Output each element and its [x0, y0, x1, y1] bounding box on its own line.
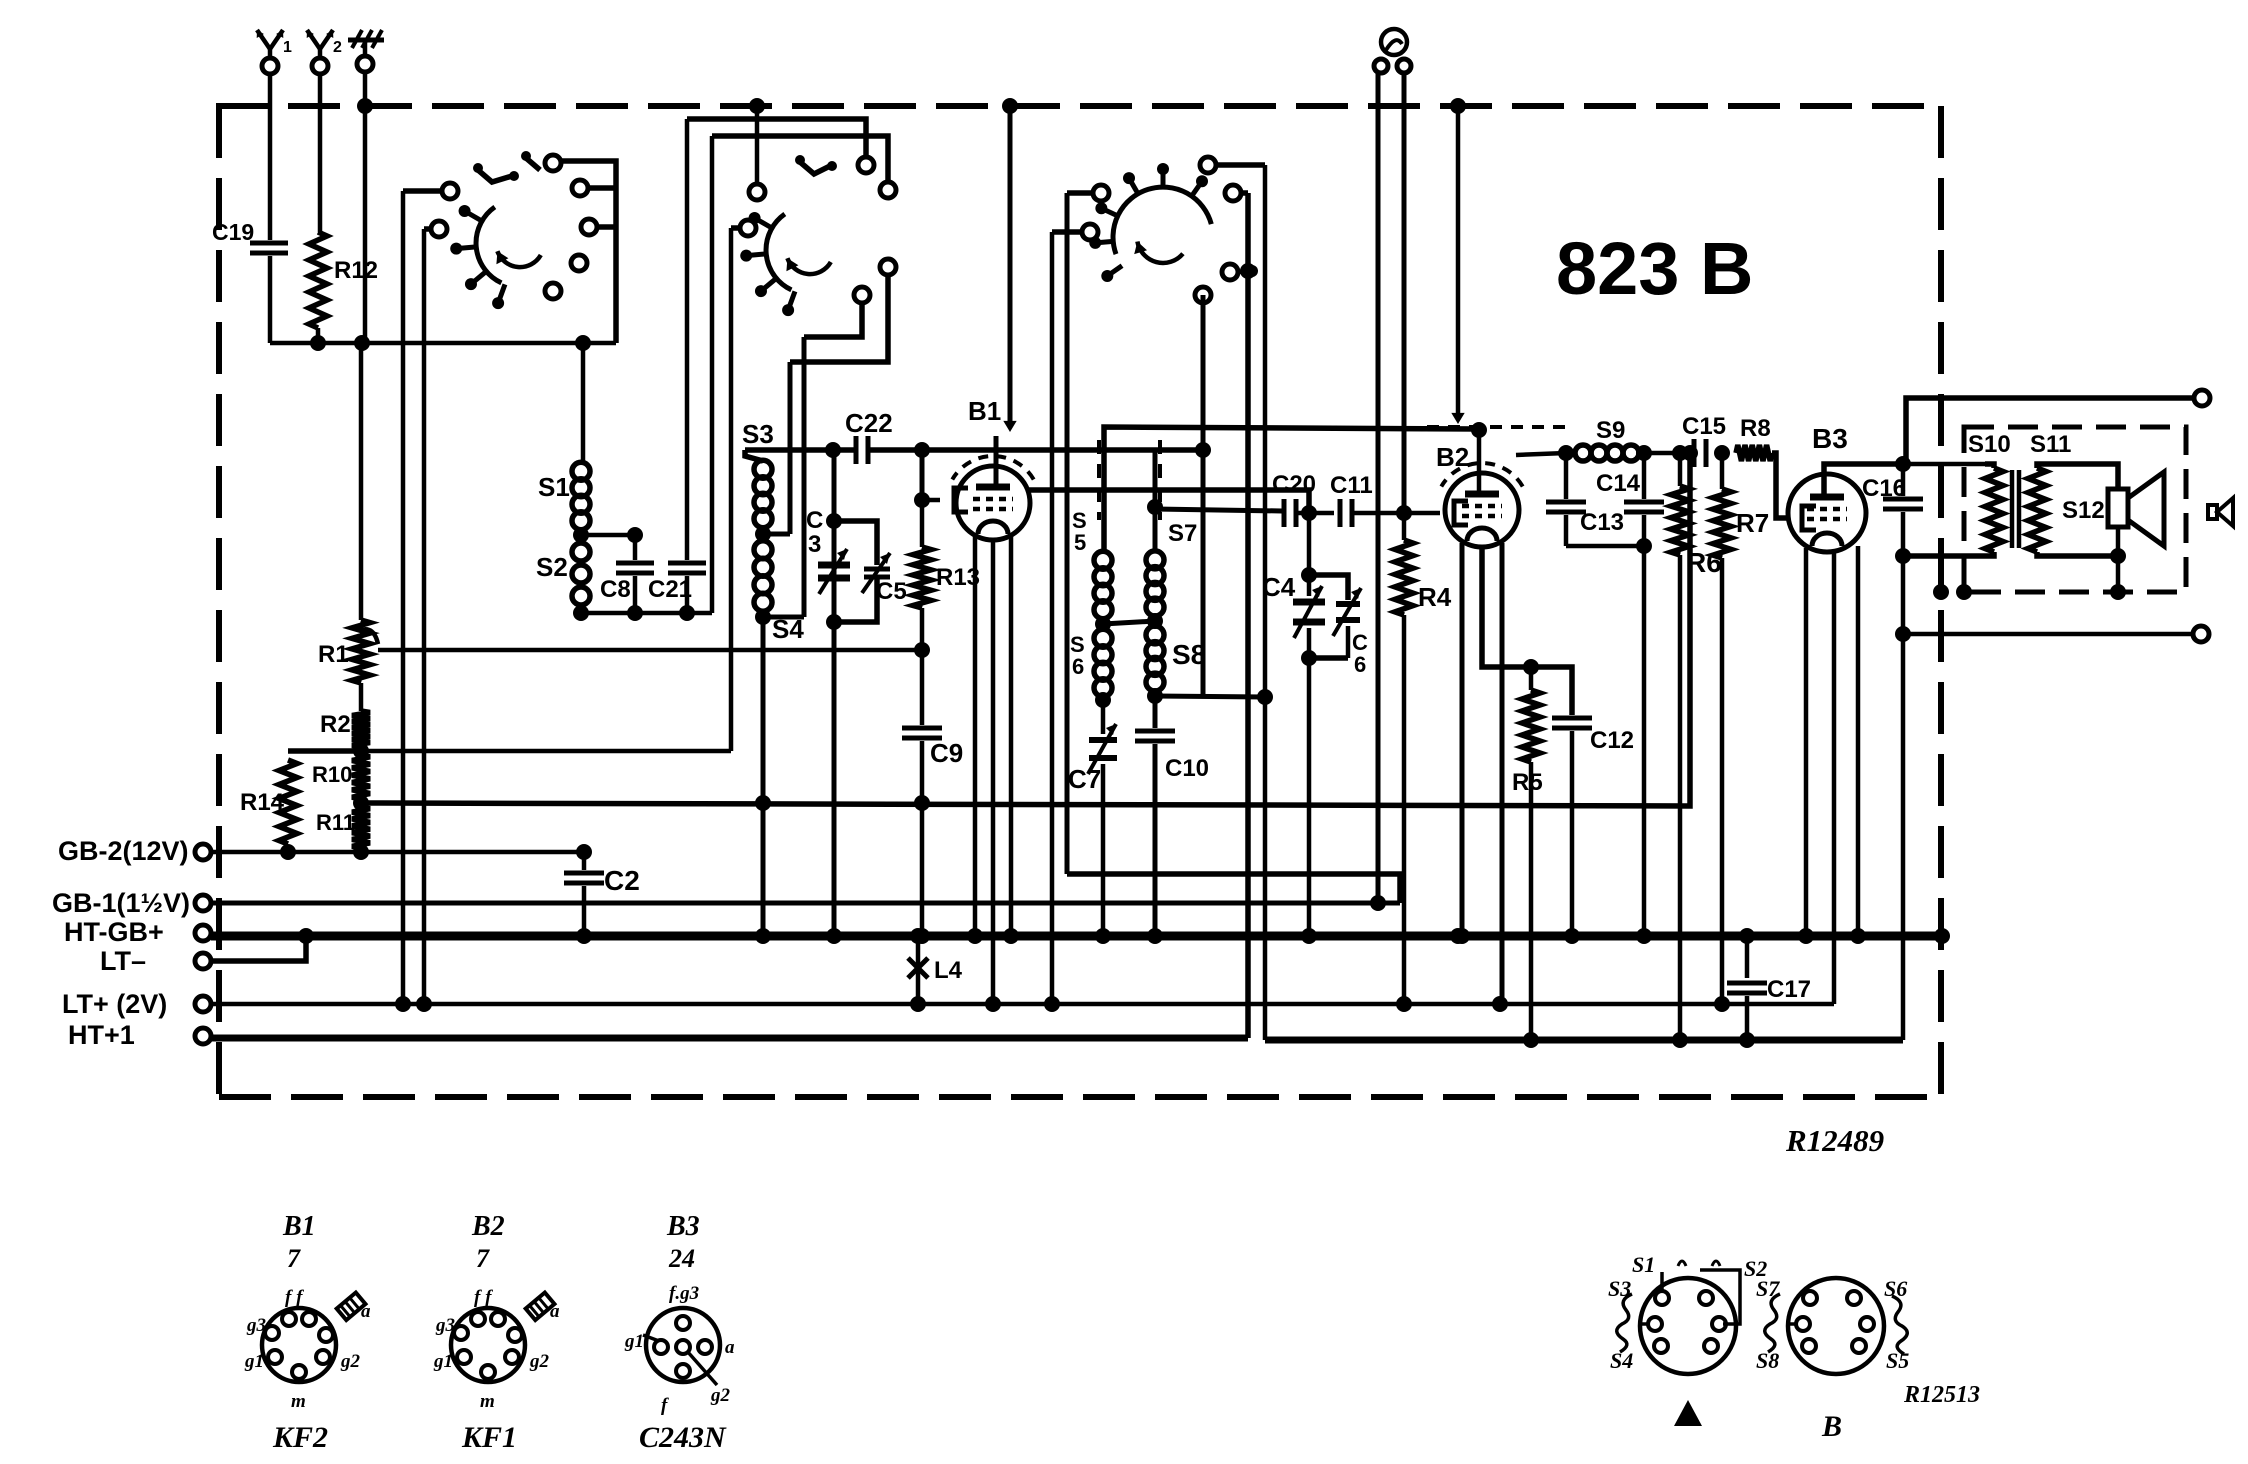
node x834 busA [826, 928, 842, 944]
wire switch I left riser 2 [422, 229, 427, 1004]
wire R8 to B3 grid [1772, 453, 1788, 518]
wire osc injection line [1104, 427, 1479, 552]
wire S3 top line [745, 447, 854, 453]
node R5 top [1523, 659, 1539, 675]
chassis dashed border left [216, 106, 222, 1097]
wire R13 down [920, 608, 925, 725]
svg-text:g3: g3 [246, 1315, 266, 1336]
node C9 on H4 [914, 795, 930, 811]
node C16 bottom [1895, 548, 1911, 564]
tube B3 [1788, 474, 1866, 552]
svg-text:S7: S7 [1756, 1276, 1780, 1301]
switch I contact f [571, 255, 587, 271]
switch I contact b [431, 221, 447, 237]
node sw1 riser2 LT+ [416, 996, 432, 1012]
node C12 busA [1564, 928, 1580, 944]
svg-text:g1: g1 [433, 1351, 453, 1372]
socket B clamp right [1892, 1296, 1907, 1354]
node HT-GB+ end [1934, 928, 1950, 944]
wire GB-1 bias link [1067, 874, 1400, 903]
svg-text:g3: g3 [435, 1315, 455, 1336]
svg-text:R8: R8 [1740, 415, 1771, 442]
wire B2 cap lead [1477, 430, 1482, 494]
terminal HT+1 [195, 1028, 211, 1044]
svg-text:C4: C4 [1262, 572, 1296, 602]
wire LT+ bus [211, 1002, 1834, 1007]
svg-text:f f: f f [474, 1287, 493, 1308]
svg-text:823 B: 823 B [1556, 227, 1753, 310]
node C16 speaker line [1895, 626, 1911, 642]
svg-text:g2: g2 [340, 1351, 361, 1372]
jack symbol [1381, 29, 1407, 55]
svg-text:B: B [1821, 1410, 1842, 1443]
node S4 on busA [755, 928, 771, 944]
node sw3 down2 LT+ [1044, 996, 1060, 1012]
svg-text:S3: S3 [742, 419, 774, 449]
node H4 top [1682, 445, 1698, 461]
wire sw2 link 2 [712, 136, 888, 182]
coil S4 [754, 541, 772, 559]
speaker cone [2128, 472, 2164, 546]
switch II contact d [880, 182, 896, 198]
tube base B1 KF2 [262, 1308, 336, 1382]
wire R7 down [1720, 558, 1725, 1004]
svg-text:6: 6 [1354, 652, 1366, 677]
wire C22 right [870, 447, 1155, 453]
transformer core [2010, 470, 2015, 548]
wire rail riser [710, 136, 715, 613]
wire C4 riser [1307, 513, 1312, 575]
svg-text:B2: B2 [471, 1211, 505, 1242]
wire S3S4 tap [763, 532, 790, 537]
wire S4 riser down [761, 617, 766, 936]
variable capacitor C6 [1336, 601, 1360, 607]
resistor R1 [352, 620, 370, 683]
terminal Y2 [312, 58, 328, 74]
coil S6 [1094, 629, 1112, 647]
switch III contact a [1093, 185, 1109, 201]
svg-text:C10: C10 [1165, 755, 1209, 782]
svg-text:S5: S5 [1886, 1348, 1909, 1373]
node S6 bottom [1095, 692, 1111, 708]
terminal Y1 [262, 58, 278, 74]
wire grid line B1 [922, 498, 940, 503]
svg-text:L4: L4 [934, 957, 963, 984]
wire sw3 down4 [1263, 165, 1268, 1040]
wire R5 down [1529, 762, 1534, 1040]
node sw1 riser LT+ [395, 996, 411, 1012]
wire C6 top link [1309, 575, 1348, 600]
terminal pickup 1 [1374, 59, 1388, 73]
node R12 bottom [310, 335, 326, 351]
terminal LT+ [195, 996, 211, 1012]
wire R6 down [1678, 555, 1683, 1040]
switch I contact d [572, 180, 588, 196]
grid box B3 [1802, 506, 1816, 530]
wire C16 down [1901, 556, 1906, 1040]
svg-text:R11: R11 [316, 810, 355, 835]
node S4 bottom [755, 609, 771, 625]
svg-text:S4: S4 [1610, 1348, 1633, 1373]
svg-text:S2: S2 [536, 552, 568, 582]
svg-text:C11: C11 [1330, 472, 1373, 499]
wire S3 top lead [745, 450, 763, 461]
svg-text:m: m [291, 1391, 306, 1412]
tube B2 legs [1460, 543, 1465, 936]
grid box B1 [954, 488, 968, 512]
variable capacitor C3 [818, 562, 850, 569]
svg-text:R10: R10 [312, 762, 352, 787]
node border box bottom [1933, 584, 1949, 600]
switch II contact c [858, 157, 874, 173]
wire C21 riser [685, 119, 690, 536]
coil socket A [1640, 1278, 1736, 1374]
svg-text:7: 7 [476, 1244, 490, 1273]
node B2 leg1 [1454, 928, 1470, 944]
svg-text:S8: S8 [1172, 639, 1206, 670]
socket A S1 link [1660, 1272, 1664, 1292]
svg-text:m: m [480, 1391, 495, 1412]
svg-text:GB-2(12V): GB-2(12V) [58, 836, 189, 866]
capacitor C13 [1564, 453, 1569, 499]
wire HT+1 bus right [1265, 1037, 1903, 1044]
capacitor C12 [1552, 716, 1592, 721]
tube B3 legs [1804, 548, 1809, 936]
wire sw2 step2 [804, 303, 862, 337]
svg-text:LT–: LT– [100, 946, 146, 976]
switch I contact a [442, 183, 458, 199]
svg-text:f f: f f [285, 1287, 304, 1308]
switch II contact f [854, 287, 870, 303]
wire earth down [363, 72, 368, 343]
variable capacitor C5 [864, 567, 890, 572]
svg-text:C: C [806, 507, 823, 534]
svg-text:S12: S12 [2062, 497, 2105, 524]
wire S7 osc link [1155, 447, 1203, 453]
wire HT+1 bus left [211, 1035, 1248, 1042]
capacitor C17 [1745, 936, 1750, 978]
coil S9 [1575, 445, 1591, 461]
svg-text:a: a [361, 1301, 371, 1322]
node C4 top [1301, 567, 1317, 583]
wire S1 riser [581, 343, 586, 463]
shield dashes S5 [1097, 440, 1101, 520]
node C3 top [826, 513, 842, 529]
wire R12 down [316, 328, 321, 343]
node R14 bottom [280, 844, 296, 860]
variable capacitor C7 [1101, 700, 1106, 734]
tube B2 [1445, 473, 1519, 547]
svg-text:R14: R14 [240, 789, 285, 816]
node C20-C11 [1301, 505, 1317, 521]
node R13 top [914, 492, 930, 508]
wire R1 line [378, 648, 924, 653]
resistor R4 [1402, 513, 1407, 540]
node R7 top [1714, 445, 1730, 461]
svg-text:C15: C15 [1682, 413, 1726, 440]
svg-text:S9: S9 [1596, 417, 1625, 444]
wire R1-R2 [359, 683, 364, 711]
svg-text:C22: C22 [845, 408, 893, 438]
wire sw3 down2 [1050, 232, 1055, 1004]
svg-text:LT+ (2V): LT+ (2V) [62, 989, 167, 1019]
coil socket B [1788, 1278, 1884, 1374]
svg-text:R4: R4 [1418, 582, 1452, 612]
wire B1 cap lead [994, 436, 999, 487]
wire to terminal bottom [1903, 632, 2193, 637]
svg-text:g2: g2 [529, 1351, 550, 1372]
capacitor C2 [582, 852, 587, 870]
resistor R2 [352, 711, 370, 747]
arrow B1 anode [1003, 421, 1016, 432]
wire S10 top lead [1985, 464, 1994, 468]
capacitor C9 [902, 726, 942, 731]
node B1 leg2 [985, 996, 1001, 1012]
tube base B3 C243N [646, 1308, 720, 1382]
svg-text:7: 7 [287, 1244, 301, 1273]
capacitor C10 [1153, 696, 1158, 728]
resistor R13 [920, 500, 925, 547]
wire Y1 down [268, 74, 273, 240]
voice coil S12 [2108, 489, 2128, 527]
svg-text:B3: B3 [1812, 423, 1848, 454]
node S12 box bottom [2110, 584, 2126, 600]
switch III rotor [1113, 187, 1211, 254]
switch I contact e [581, 219, 597, 235]
svg-text:S1: S1 [538, 472, 570, 502]
coil S8 [1146, 626, 1164, 644]
node B1 leg3 [1003, 928, 1019, 944]
wire S12 link [2116, 527, 2121, 592]
node S4 on H4 [755, 795, 771, 811]
wire sw2 link top [687, 119, 866, 157]
node C8 bottom [627, 605, 643, 621]
svg-text:a: a [550, 1301, 560, 1322]
node C3 bottom [826, 614, 842, 630]
wire B2 to S9 [1516, 453, 1566, 455]
node B3 anode [1895, 456, 1911, 472]
node S7-S8 [1147, 613, 1163, 629]
node S1-S2 [573, 527, 589, 543]
svg-text:GB-1(1½V): GB-1(1½V) [52, 888, 190, 918]
svg-text:C21: C21 [648, 576, 692, 603]
coil S2 [572, 543, 590, 561]
node R7 LT+ [1714, 996, 1730, 1012]
wire C7 down [1101, 764, 1106, 936]
switch III contact c [1225, 185, 1241, 201]
svg-text:g1: g1 [244, 1351, 264, 1372]
svg-text:f.g3: f.g3 [669, 1283, 699, 1304]
speaker icon [2208, 505, 2217, 519]
node B3 leg1 [1798, 928, 1814, 944]
capacitor C21 [685, 536, 690, 560]
svg-text:R12513: R12513 [1903, 1382, 1980, 1408]
node R6 top [1672, 445, 1688, 461]
wire to terminal top [1906, 398, 2194, 464]
node S8 link end [1257, 689, 1273, 705]
wire B1 plate line [1028, 490, 1309, 513]
wire HT-GB+ bus [211, 932, 1942, 941]
svg-text:B1: B1 [968, 396, 1001, 426]
capacitor C20 [1282, 499, 1287, 527]
wire C13-C14 rail [1566, 544, 1644, 549]
wire H4 screen line [361, 455, 1690, 806]
svg-text:S10: S10 [1968, 431, 2011, 458]
svg-text:g1: g1 [624, 1331, 644, 1352]
node sw3 rotor link [1240, 263, 1256, 279]
node L4 bottom [910, 996, 926, 1012]
resistor R10 [352, 755, 370, 799]
svg-text:C7: C7 [1068, 764, 1101, 794]
switch II contact b [740, 220, 756, 236]
wire S10 bottom [1903, 552, 1994, 556]
wire C5 box [834, 521, 877, 565]
wire R1 hook [361, 629, 378, 644]
node S5-S6 [1095, 616, 1111, 632]
tube base B2 KF1 [451, 1308, 525, 1382]
wire sw2 rotor feed [755, 106, 760, 184]
node B1 anode border [1002, 98, 1018, 114]
lamp L4 [916, 936, 921, 1004]
node B2 border [1450, 98, 1466, 114]
node busA x1458 [1450, 928, 1466, 944]
node S8 bottom [1147, 688, 1163, 704]
node C4 bottom [1301, 650, 1317, 666]
svg-text:a: a [725, 1337, 735, 1358]
node C14 busA [1636, 928, 1652, 944]
wire S9 right [1639, 451, 1693, 456]
wire S7 to C20 [1155, 509, 1282, 511]
node S12 bottom [2110, 548, 2126, 564]
svg-text:S3: S3 [1608, 1276, 1631, 1301]
terminal GB-1 [195, 895, 211, 911]
wire earth chain down [359, 343, 364, 620]
wire C4 down [1307, 658, 1312, 936]
wire C22 corner down [920, 450, 925, 500]
svg-text:C17: C17 [1767, 976, 1811, 1003]
wire C19 to junction [268, 256, 273, 343]
svg-text:B3: B3 [666, 1211, 700, 1242]
wire sw3 down5 [1245, 193, 1251, 1038]
svg-text:KF1: KF1 [461, 1421, 517, 1454]
node R5 HT+1 [1523, 1032, 1539, 1048]
tube B1 [956, 466, 1030, 540]
capacitor C19 [250, 241, 288, 246]
node S9 left [1558, 445, 1574, 461]
wire coil bottom rail [581, 611, 712, 616]
node R10 bottom [353, 795, 369, 811]
svg-text:KF2: KF2 [272, 1421, 328, 1454]
variable capacitor C4 [1307, 575, 1312, 596]
svg-text:C13: C13 [1580, 509, 1624, 536]
node sw2 border [749, 98, 765, 114]
switch III contact b [1200, 157, 1216, 173]
wire transformer top [1903, 462, 1985, 467]
node x1964 box bottom [1956, 584, 1972, 600]
svg-text:g2: g2 [710, 1385, 731, 1406]
svg-text:C8: C8 [600, 576, 631, 603]
wire C6 bottom link [1309, 655, 1348, 661]
wire Y2 down [318, 74, 323, 232]
switch I contact g [545, 283, 561, 299]
wire H3 bias line [361, 749, 731, 754]
terminal speaker top [2194, 390, 2210, 406]
wire R4 down [1402, 615, 1407, 1004]
wire sw3 down1 [1065, 193, 1070, 874]
wire pickup 1 [1376, 73, 1381, 903]
wire GB-2 end node [576, 844, 592, 860]
switch I frame right [552, 161, 616, 343]
switch II stub [800, 162, 830, 174]
wire C20-C11 link [1298, 511, 1334, 516]
node C8 top [627, 527, 643, 543]
svg-text:C243N: C243N [639, 1421, 727, 1454]
switch II contact e [880, 259, 896, 275]
terminal speaker bottom [2193, 626, 2209, 642]
arrow B2 anode [1451, 413, 1464, 424]
switch III contact f [1195, 287, 1211, 303]
wire sw2 step1 [790, 275, 888, 362]
switch III contact e [1222, 264, 1238, 280]
node earth bottom [354, 335, 370, 351]
wire S4 bottom rail [763, 615, 804, 620]
node L4 top [910, 928, 926, 944]
resistor R7 [1720, 453, 1725, 489]
tube B1 legs [973, 536, 978, 936]
switch II rotor [766, 214, 791, 290]
wire switch I left riser [401, 191, 406, 1004]
node R1 line end [914, 642, 930, 658]
node R4 top [1396, 505, 1412, 521]
node C7 busA [1095, 928, 1111, 944]
node R4 LT+ [1396, 996, 1412, 1012]
node B2 plate line [1471, 422, 1487, 438]
node LT- to bus [298, 928, 314, 944]
wire C9 down [920, 741, 925, 936]
coil S5 [1094, 551, 1112, 569]
node C4 busA [1301, 928, 1317, 944]
svg-text:R1: R1 [318, 641, 349, 668]
wire sw2 down left [729, 228, 734, 751]
svg-text:3: 3 [808, 531, 821, 558]
switch I rotor [476, 207, 501, 283]
wire pickup 2 [1402, 73, 1407, 511]
capacitor C15 [1692, 439, 1697, 467]
resistor R8 [1736, 445, 1772, 461]
wire S11 top [2037, 464, 2118, 489]
terminal HT-GB+ [195, 925, 211, 941]
wire GB-1 bus [211, 901, 1400, 906]
node S3-S4 [755, 526, 771, 542]
capacitor C14 [1642, 453, 1647, 499]
capacitor C22 [854, 436, 859, 464]
svg-text:S8: S8 [1756, 1348, 1779, 1373]
svg-text:B1: B1 [282, 1211, 316, 1242]
antenna Y2 symbol [318, 46, 323, 58]
svg-text:R2: R2 [320, 711, 351, 738]
svg-text:C20: C20 [1272, 471, 1316, 498]
wire sw2 to S4 rail [802, 337, 807, 617]
svg-text:S7: S7 [1168, 520, 1197, 547]
socket A S2 link [1700, 1270, 1740, 1324]
node C2 bottom [576, 928, 592, 944]
coil S1 [572, 462, 590, 480]
label A [1674, 1400, 1702, 1426]
speaker dashed box [1964, 427, 2186, 592]
wire R14 top [288, 748, 361, 754]
svg-text:C2: C2 [604, 865, 640, 896]
wire C14 down [1642, 546, 1647, 936]
